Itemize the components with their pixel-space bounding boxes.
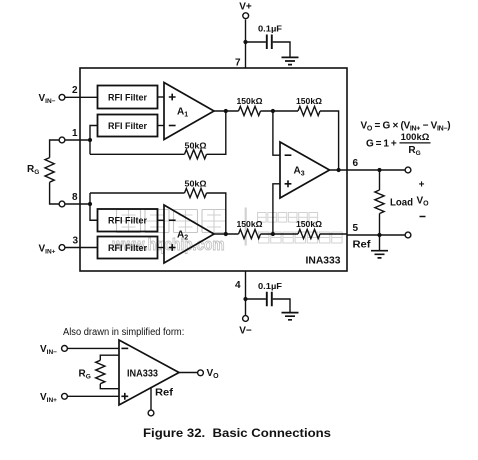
- svg-text:8: 8: [72, 192, 78, 203]
- svg-text:RFI Filter: RFI Filter: [108, 93, 147, 104]
- watermark small chinese row 2 (fake): [259, 232, 343, 243]
- svg-text:50kΩ: 50kΩ: [185, 178, 207, 188]
- svg-text:Ref: Ref: [353, 240, 372, 251]
- RFI filter 1 box: [98, 86, 158, 109]
- watermark: big chinese chars (fake glyph blocks): [117, 210, 227, 233]
- svg-text:150kΩ: 150kΩ: [296, 96, 322, 106]
- svg-text:www.hqchip.com: www.hqchip.com: [112, 235, 225, 254]
- op-amp A3: [280, 142, 330, 198]
- junction A3 plus node: [271, 232, 275, 236]
- resistor 150k bottom-right: [298, 229, 320, 238]
- wire RFI3 input from pin8 node: [90, 193, 98, 220]
- svg-text:G = 1 +: G = 1 +: [366, 138, 397, 149]
- wire A1 output: [214, 110, 239, 112]
- ground (bottom): [282, 313, 299, 320]
- resistor 150k top-left: [239, 106, 261, 115]
- resistor 50k A1 feedback: wire from pin1 node: [90, 153, 185, 155]
- IC boundary box: [80, 68, 347, 271]
- wire junction to C2: [246, 298, 266, 300]
- terminal V+: [243, 13, 249, 19]
- svg-text:7: 7: [235, 57, 241, 68]
- wire 50k to A1 output: [207, 111, 226, 154]
- capacitor C2 0.1uF: [267, 292, 272, 307]
- svg-text:3: 3: [72, 236, 78, 247]
- terminal pin 2: [59, 94, 65, 100]
- wire RFI4 to A2+: [158, 247, 165, 249]
- simplified op-amp INA333: [119, 340, 179, 405]
- wire pin6 output line: [347, 169, 405, 171]
- svg-text:6: 6: [353, 158, 359, 169]
- wire A3 plus input: [273, 184, 280, 234]
- svg-text:Also drawn in simplified form:: Also drawn in simplified form:: [63, 327, 184, 338]
- VO minus polarity: [420, 216, 426, 218]
- wire A2 output: [214, 233, 239, 235]
- wire between top 150k resistors: [261, 110, 299, 112]
- resistor RG (gain set): [45, 158, 54, 183]
- junction pin1 node: [88, 138, 92, 142]
- watermark small chinese row 1 (fake): [258, 213, 318, 223]
- wire simplified Ref: [150, 387, 152, 410]
- wire VIN- to triangle: [68, 347, 119, 349]
- svg-text:0.1µF: 0.1µF: [258, 281, 282, 291]
- wire pin1 to node: [66, 139, 91, 141]
- svg-text:Load: Load: [390, 198, 413, 209]
- wire load bottom lead: [379, 214, 381, 236]
- junction pin8 node: [88, 202, 92, 206]
- junction A3 minus node: [271, 109, 275, 113]
- simplified RG top stub: [100, 355, 119, 360]
- wire RG bottom to pin8: [50, 182, 59, 204]
- svg-text:150kΩ: 150kΩ: [237, 96, 263, 106]
- terminal VO out: [405, 167, 411, 173]
- junction load top: [377, 168, 381, 172]
- svg-text:V+: V+: [239, 2, 252, 13]
- svg-text:50kΩ: 50kΩ: [185, 141, 207, 151]
- terminal Ref: [405, 232, 411, 238]
- wire RFI2 input from pin1 node: [90, 126, 98, 155]
- simplified terminal VIN-: [62, 346, 68, 352]
- simplified plus mark: [121, 393, 128, 400]
- wire C1 to ground: [273, 42, 290, 57]
- wire top 150k to output feedback: [320, 111, 339, 170]
- ground (ref): [371, 251, 388, 258]
- svg-text:+: +: [419, 179, 425, 190]
- A1 minus input mark: [169, 125, 176, 127]
- wire pin 4 to V-: [245, 271, 247, 315]
- A3 minus input mark: [285, 154, 292, 156]
- wire RFI3 to A2-: [158, 219, 165, 221]
- wire pin2 to RFI filter 1: [66, 96, 98, 98]
- svg-text:5: 5: [353, 223, 359, 234]
- simplified resistor RG: [96, 360, 105, 383]
- fraction bar: [400, 142, 431, 144]
- simplified terminal VIN+: [62, 393, 68, 399]
- svg-text:2: 2: [72, 85, 78, 96]
- wire C2 to ground: [273, 299, 290, 312]
- wire RFI2 to A1-: [158, 125, 165, 127]
- watermark divider bar: [245, 208, 247, 246]
- terminal pin 3: [59, 245, 65, 251]
- svg-text:Ref: Ref: [155, 388, 174, 399]
- A2 plus input mark: [169, 244, 176, 251]
- op-amp A2: [164, 205, 214, 263]
- svg-text:150kΩ: 150kΩ: [237, 219, 263, 229]
- wire 50k to A2 output: [207, 193, 226, 234]
- simplified terminal Ref: [148, 410, 154, 416]
- simplified terminal VO: [198, 370, 204, 376]
- wire ref to ground: [379, 235, 381, 250]
- resistor 50k (A1): [185, 150, 207, 159]
- wire RFI1 to A1+: [158, 96, 165, 98]
- wire bottom 150k to pin5: [320, 233, 347, 235]
- svg-text:RFI Filter: RFI Filter: [108, 121, 147, 132]
- junction A1 output: [224, 109, 228, 113]
- terminal pin 1: [59, 137, 65, 143]
- junction ref/ground: [377, 233, 381, 237]
- wire pin5 ref line: [347, 234, 405, 236]
- op-amp A1: [164, 83, 214, 140]
- RFI filter 2 box: [98, 115, 158, 137]
- resistor 150k top-right: [298, 106, 320, 115]
- simplified minus mark: [121, 347, 128, 349]
- terminal pin 8: [59, 201, 65, 207]
- wire simplified output: [179, 372, 197, 374]
- A1 plus input mark: [169, 94, 176, 101]
- svg-text:INA333: INA333: [306, 256, 341, 267]
- junction A2 output: [224, 232, 228, 236]
- A2 minus input mark: [169, 219, 176, 221]
- junction V+ / C1: [243, 40, 247, 44]
- resistor 50k (A2): [185, 188, 207, 197]
- svg-text:VO = G × (VIN+ − VIN−): VO = G × (VIN+ − VIN−): [361, 120, 451, 132]
- svg-text:0.1µF: 0.1µF: [258, 24, 282, 34]
- ground (top): [282, 57, 299, 64]
- RFI filter 4 box: [98, 237, 158, 259]
- svg-text:Figure 32. Basic Connections: Figure 32. Basic Connections: [143, 426, 331, 440]
- A3 plus input mark: [285, 180, 292, 187]
- resistor 50k A2 feedback: wire from pin8 node: [90, 192, 185, 194]
- wire A3 output to pin 6: [330, 169, 348, 171]
- wire V+ to pin 7: [245, 19, 247, 68]
- resistor 150k bottom-left: [239, 229, 261, 238]
- svg-text:INA333: INA333: [127, 368, 158, 379]
- wire pin3 to RFI filter 4: [66, 247, 98, 249]
- capacitor C1 0.1uF: [267, 35, 272, 50]
- wire pin8 to node: [66, 203, 91, 205]
- resistor Load: [375, 190, 384, 214]
- wire junction to C1: [246, 41, 266, 43]
- wire load top lead: [379, 170, 381, 190]
- svg-text:100kΩ: 100kΩ: [401, 132, 430, 143]
- wire pin1 to RG top: [50, 140, 59, 158]
- svg-text:V−: V−: [239, 326, 252, 337]
- wire VIN+ to triangle: [68, 395, 119, 397]
- wire A3 minus input: [273, 111, 280, 155]
- junction feedback/output: [337, 168, 341, 172]
- svg-text:1: 1: [72, 128, 78, 139]
- RFI filter 3 box: [98, 209, 158, 232]
- simplified RG bottom stub: [100, 384, 119, 389]
- terminal V-: [243, 316, 249, 322]
- svg-text:4: 4: [235, 280, 241, 291]
- junction pin4 / C2: [243, 297, 247, 301]
- wire between bottom 150k resistors: [261, 233, 299, 235]
